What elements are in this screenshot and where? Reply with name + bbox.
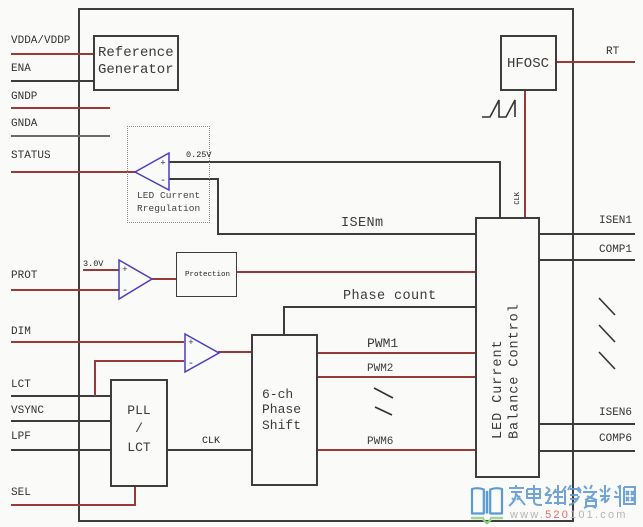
svg-text:+: + (188, 338, 193, 348)
svg-text:-: - (188, 359, 194, 370)
svg-text:-: - (160, 176, 166, 187)
svg-text:+: + (122, 265, 127, 275)
svg-text:+: + (160, 159, 165, 169)
svg-text:-: - (122, 286, 128, 297)
